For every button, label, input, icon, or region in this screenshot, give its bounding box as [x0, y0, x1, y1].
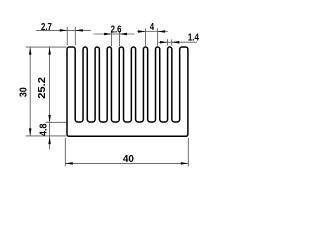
dimension 25.2 arrow bottom	[48, 115, 51, 123]
dimension 30 dimension line	[29, 47, 31, 136]
dimension 1.4 arrow left	[160, 41, 168, 44]
slot-bottom level extension line	[45, 121, 66, 123]
dimension 30 arrow top	[29, 47, 32, 55]
dimension 4 arrow right	[158, 30, 166, 33]
dimension 40 extension line right	[187, 138, 189, 167]
dimension 2.7 extension line left	[66, 27, 68, 45]
svg-text:4.8: 4.8	[38, 123, 50, 136]
svg-text:1.4: 1.4	[188, 32, 200, 43]
dimension 1.4 extension line right	[171, 39, 173, 45]
heatsink profile outline (40x30 finned extrusion)	[67, 47, 188, 136]
dimension 4 extension line left	[145, 28, 147, 46]
dimension 2.7 arrow right	[75, 29, 83, 32]
svg-text:2.7: 2.7	[41, 21, 52, 32]
dimension 4 arrow left	[138, 30, 146, 33]
dimension 2.7 dimension line	[36, 29, 91, 31]
svg-text:30: 30	[18, 87, 30, 97]
dimension 2.6 extension line right	[118, 31, 120, 47]
dimension 2.7 arrow left	[60, 29, 68, 32]
dimension 30 arrow bottom	[29, 128, 32, 136]
dimension 1.4 dimension line	[158, 41, 197, 43]
dimension 25.2 / 4.8 shared dimension line	[49, 47, 51, 149]
svg-text:25.2: 25.2	[37, 77, 48, 99]
dimension 40 extension line left	[64, 138, 66, 167]
svg-text:40: 40	[123, 154, 134, 165]
profile-bottom level extension line	[26, 135, 66, 137]
dimension 40 arrow right	[181, 162, 189, 165]
dimension 2.6 extension line left	[111, 31, 113, 47]
fin-top level extension line	[26, 46, 67, 48]
dimension 4 dimension line	[137, 31, 168, 33]
dimension 25.2 arrow top	[48, 47, 51, 55]
dimension 1.4 extension line left	[166, 39, 168, 45]
dimension 4.8 arrow (below bottom edge, pointing up)	[48, 137, 51, 145]
dimension 2.6 dimension line	[94, 33, 135, 35]
dimension 2.6 arrow left	[104, 33, 112, 36]
dimension 4 extension line right	[157, 28, 159, 46]
dimension 2.7 extension line right	[74, 27, 76, 45]
svg-text:2.6: 2.6	[111, 23, 122, 34]
dimension 1.4 arrow right	[172, 41, 180, 44]
dimension 40 dimension line	[65, 162, 188, 164]
dimension 40 arrow left	[65, 162, 73, 165]
dimension 2.6 arrow right	[119, 33, 127, 36]
